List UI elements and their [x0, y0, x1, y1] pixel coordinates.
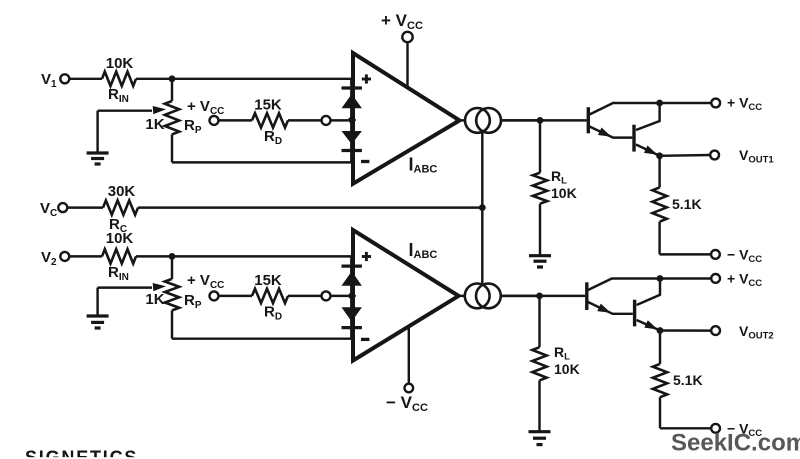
svg-text:1K: 1K: [145, 291, 164, 308]
svg-text:10K: 10K: [551, 185, 577, 201]
svg-text:30K: 30K: [108, 183, 136, 200]
svg-text:SeekIC.com: SeekIC.com: [671, 430, 800, 457]
svg-text:15K: 15K: [254, 97, 282, 114]
svg-text:10K: 10K: [106, 55, 134, 72]
svg-text:15K: 15K: [254, 272, 282, 289]
svg-text:5.1K: 5.1K: [673, 372, 703, 388]
svg-text:10K: 10K: [554, 361, 580, 377]
svg-text:1K: 1K: [145, 116, 164, 133]
svg-text:10K: 10K: [106, 230, 134, 247]
svg-text:5.1K: 5.1K: [672, 196, 702, 212]
